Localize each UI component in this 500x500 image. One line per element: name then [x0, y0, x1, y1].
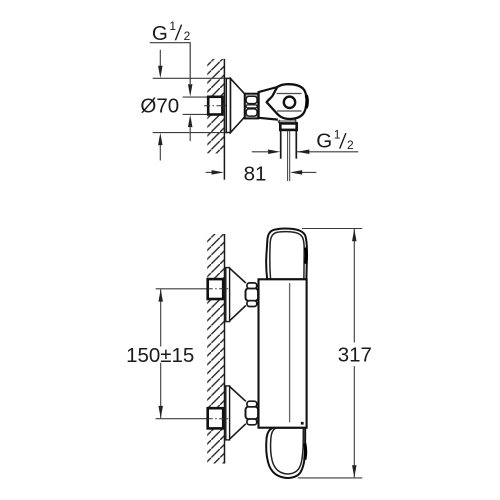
- svg-text:G: G: [152, 22, 168, 45]
- svg-text:2: 2: [184, 29, 191, 43]
- svg-text:150±15: 150±15: [126, 344, 194, 367]
- svg-text:G: G: [316, 130, 332, 153]
- svg-text:Ø70: Ø70: [140, 94, 179, 117]
- svg-text:81: 81: [244, 163, 267, 186]
- svg-text:2: 2: [347, 138, 354, 152]
- svg-text:317: 317: [338, 344, 372, 367]
- svg-text:1: 1: [334, 127, 341, 141]
- svg-text:1: 1: [169, 19, 176, 33]
